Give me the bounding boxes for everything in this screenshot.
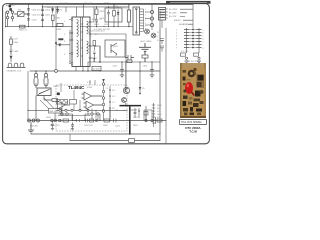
svg-text:6: 6 [145, 23, 146, 25]
T601 pin circles left [71, 19, 73, 21]
svg-text:C622 100: C622 100 [84, 125, 94, 127]
title bar [166, 1, 211, 4]
osc block [57, 100, 68, 105]
wire mid bus y62 [88, 61, 160, 63]
capacitor C605 [41, 14, 51, 17]
small symbols left of divider [160, 39, 164, 52]
svg-text:F/B 5V: F/B 5V [174, 20, 181, 22]
svg-text:REL 601: REL 601 [50, 111, 59, 113]
right side small text column [157, 32, 159, 42]
svg-text:TDA 1670 SHEMA: TDA 1670 SHEMA [181, 121, 202, 124]
small cluster on x56 line [55, 39, 70, 46]
diode D601 [47, 7, 54, 13]
svg-text:Q602 C3866: Q602 C3866 [140, 41, 152, 43]
parts left of Q601 [93, 41, 101, 63]
wire top bus upper [10, 3, 193, 5]
svg-text:8.2K: 8.2K [14, 39, 19, 41]
AC plug circles [6, 11, 13, 27]
diode D606 [10, 56, 12, 62]
resistor R624 [134, 108, 140, 118]
svg-text:DEGAUSS COIL: DEGAUSS COIL [7, 70, 23, 73]
small component pair right [125, 55, 134, 63]
fuse F601 black blocks [9, 5, 12, 11]
label smudge under transistors [140, 41, 152, 43]
wire T right pins [93, 7, 95, 63]
junction dots y62 [99, 61, 152, 62]
svg-text:1: 1 [145, 9, 146, 11]
small parts bottom row [59, 113, 163, 124]
svg-text:180V: 180V [157, 105, 162, 107]
svg-text:R622 4.7K: R622 4.7K [50, 125, 60, 127]
svg-text:TH601: TH601 [53, 86, 60, 88]
svg-text:C604: C604 [45, 10, 51, 12]
resistor R611 inside [113, 11, 116, 17]
dark heatsink right [197, 74, 205, 88]
svg-text:3: 3 [176, 35, 177, 37]
connector pin labels [176, 29, 205, 49]
right mid tick column [152, 103, 155, 127]
wire snubber bottom [80, 26, 133, 28]
earth ground symbol mid-right [139, 43, 151, 62]
pin number smudges [145, 9, 146, 31]
svg-text:e: e [203, 41, 204, 43]
wire right column vertical [159, 30, 161, 134]
capacitor C602 [27, 14, 41, 17]
capacitor C613 [95, 20, 98, 27]
snubber wires [109, 4, 119, 26]
resistor R602 [19, 23, 63, 31]
relay box RY601 [92, 66, 101, 70]
top mid labels row [60, 2, 92, 5]
capacitor C606 [41, 19, 44, 20]
resistor R601 [52, 15, 62, 26]
black component [159, 8, 166, 21]
svg-text:4.7 50V: 4.7 50V [93, 69, 101, 71]
comparator A1 [82, 92, 103, 100]
bottom row label smudges [46, 117, 139, 131]
capacitor C608 [10, 50, 19, 55]
resistor R608 [52, 99, 58, 102]
svg-text:1: 1 [176, 29, 177, 31]
junction dots input [5, 4, 58, 27]
wire divider photo column [165, 28, 167, 143]
right top link wires [180, 9, 193, 24]
svg-text:7: 7 [176, 47, 177, 49]
ref block [70, 100, 77, 105]
regulator block right top [165, 9, 168, 18]
wire vertical x70 [69, 30, 71, 62]
wire riser x100 [91, 46, 100, 62]
comparator A2 [84, 101, 103, 109]
top mid labels [104, 3, 119, 8]
svg-text:H.DRIVE: H.DRIVE [179, 24, 188, 26]
internal bus dots [0, 0, 1, 1]
svg-text:B+ 24V: B+ 24V [169, 13, 177, 15]
caption lines [185, 126, 201, 134]
label row under snubber [94, 24, 110, 31]
secondary winding [87, 21, 89, 34]
svg-text:5: 5 [176, 41, 177, 43]
transistor Q603 [151, 33, 156, 38]
inductor L620 [144, 106, 148, 120]
red capacitor [185, 82, 193, 94]
svg-text:SW: SW [18, 10, 21, 12]
wire box to ladder [161, 20, 163, 28]
svg-text:R602 2.2: R602 2.2 [19, 30, 28, 32]
svg-text:R C: R C [112, 96, 116, 98]
scattered components [183, 70, 186, 73]
left mid chain: resistor R606 [10, 36, 19, 49]
jack keyhole P602 [34, 71, 38, 86]
IC U601 dashed outline [56, 85, 127, 131]
svg-text:g: g [203, 47, 204, 49]
connector ladder [184, 28, 202, 48]
capacitor C604 [41, 9, 51, 12]
svg-text:2: 2 [176, 32, 177, 34]
wire vertical x30 [28, 4, 30, 26]
connector J601 degauss [7, 63, 26, 67]
switching transistor Q601 box [105, 40, 125, 57]
transformer pin labels [64, 19, 102, 60]
internal bus y110 [57, 109, 128, 111]
svg-text:C605: C605 [45, 15, 51, 17]
svg-text:TL494C: TL494C [68, 85, 85, 90]
svg-text:5: 5 [145, 20, 146, 22]
ground bottom-left [28, 122, 34, 133]
primary winding [77, 20, 79, 37]
zener ZD602 branch [139, 62, 145, 94]
wire bottom row bus [28, 120, 166, 122]
svg-text:R C R C: R C R C [181, 51, 189, 53]
capacitor C611 inside [107, 10, 110, 21]
svg-text:7: 7 [145, 26, 146, 28]
wire left drop [27, 71, 29, 121]
T601 pin stubs [69, 20, 94, 64]
wire vertical x88 [87, 62, 89, 71]
wire ground bus [31, 133, 160, 135]
jack keyhole P603 [44, 71, 48, 86]
svg-text:3: 3 [145, 15, 146, 17]
snubber network box [105, 8, 122, 22]
svg-text:C601 472: C601 472 [32, 9, 42, 11]
svg-text:R C: R C [112, 90, 116, 92]
right mid text smudges [157, 105, 162, 119]
toroid coil [188, 70, 196, 78]
svg-text:IC601: IC601 [87, 87, 93, 89]
small black mark [57, 93, 60, 96]
wire vertical x44 [42, 4, 44, 26]
svg-text:C602 472: C602 472 [32, 14, 42, 16]
bottom connector circles [28, 119, 62, 122]
wire main mid bus y71 [30, 70, 160, 72]
wire top bus second [42, 6, 129, 8]
svg-text:R613 C613 D614: R613 C613 D614 [89, 31, 105, 33]
svg-text:B+ 12V: B+ 12V [169, 16, 177, 18]
junction circles x150 [145, 10, 154, 26]
capacitor C616 w/ ground [143, 62, 155, 78]
bus junction dots y71 [35, 70, 152, 135]
wire T bottom to bus [76, 4, 84, 71]
snubber junction dots [96, 4, 130, 27]
posistor TH601 [36, 83, 52, 120]
wire x160 to top [159, 11, 161, 30]
output labels [169, 9, 188, 26]
wire vertical x193 [192, 5, 194, 29]
svg-text:F601 T2A: F601 T2A [60, 2, 69, 5]
svg-text:d: d [203, 38, 204, 40]
svg-text:c: c [203, 35, 204, 37]
line filter L601 [14, 10, 29, 17]
svg-text:B+ 115V: B+ 115V [169, 9, 178, 11]
diode D611 inside [117, 12, 119, 14]
zener D602 [57, 7, 63, 14]
bottom risers [70, 109, 160, 141]
pin circle column pins 8-12 [90, 79, 111, 120]
svg-text:R610 2W: R610 2W [84, 3, 92, 5]
wire vertical x56 [56, 7, 66, 71]
IC601 tall block [133, 7, 140, 35]
wire vertical x150 [151, 4, 153, 29]
comparator A3 left [58, 101, 71, 109]
transistor Q602 [145, 29, 150, 34]
node ring on bus [55, 70, 58, 73]
capacitor C601 [27, 9, 41, 12]
wire Q risers [125, 62, 127, 105]
resistor R613 left column [95, 7, 105, 27]
IC601 pin stubs [140, 9, 144, 31]
capacitor C615 w/ ground [113, 61, 125, 77]
heatsink T bar [120, 106, 142, 134]
svg-text:AC INPUT: AC INPUT [6, 4, 16, 7]
capacitor C603 [27, 19, 37, 22]
text row mid [89, 31, 105, 39]
wire lower return bus [70, 140, 160, 142]
wire left cluster bottom [6, 26, 72, 28]
svg-text:b: b [203, 32, 204, 34]
caption box [180, 120, 207, 125]
svg-text:PCB TOP VIEW: PCB TOP VIEW [186, 61, 200, 63]
transformer T601 [69, 17, 94, 67]
svg-text:C603: C603 [32, 19, 38, 21]
wire AC input left [6, 4, 10, 26]
resistor R621 [63, 119, 69, 122]
svg-text:4: 4 [176, 38, 177, 40]
relay RL601 box [49, 109, 62, 114]
svg-text:6: 6 [176, 44, 177, 46]
photo inset PCB [180, 63, 206, 118]
T601 pin circles right [89, 21, 91, 23]
diode D620 [55, 119, 57, 121]
TL494 internal wires [58, 83, 110, 121]
svg-text:GND: GND [157, 114, 162, 116]
svg-text:T.C.M: T.C.M [189, 130, 197, 134]
page border frame [3, 4, 210, 144]
transistor Q605 [122, 98, 127, 103]
resistor R612 tall [123, 5, 131, 27]
transistor Q604 [123, 87, 129, 93]
wire riser x126 collector [91, 34, 126, 89]
capacitor C620 [71, 123, 74, 132]
sub circuit below ladder [181, 48, 202, 62]
